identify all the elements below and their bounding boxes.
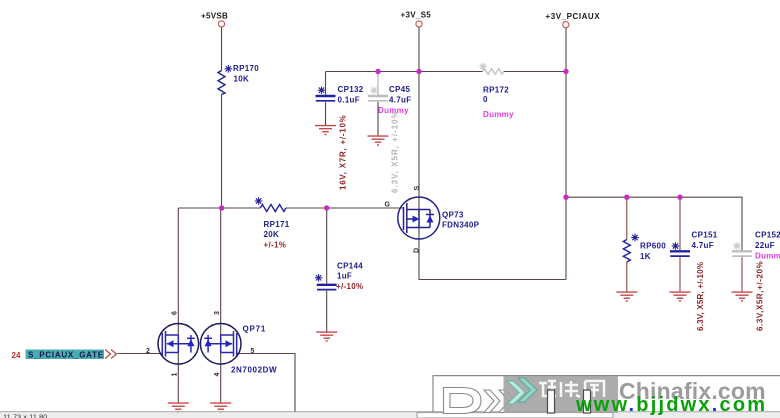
capacitor CP45 4.7uF Dummy (368, 85, 411, 193)
wire down to QP71 pin3 (220, 208, 222, 335)
svg-text:+/-1%: +/-1% (264, 241, 287, 250)
node PCIAUX top junction (563, 69, 568, 74)
ground CP144 (316, 332, 337, 341)
wire rail y=71.5 left of RP172 (326, 71, 483, 73)
wire CP152 bottom to ground (741, 257, 743, 291)
svg-text:+3V_PCIAUX: +3V_PCIAUX (546, 12, 601, 21)
warm drop wires right section (627, 197, 742, 291)
node CP151 junction (677, 195, 682, 200)
ground CP45 (368, 136, 389, 145)
svg-text:5: 5 (251, 348, 255, 355)
svg-text:+/-10%: +/-10% (336, 282, 363, 291)
svg-text:6: 6 (172, 311, 179, 315)
wire CP45 top (dummy gray) (377, 72, 379, 95)
ground CP152 (732, 292, 753, 301)
wire +3V_PCIAUX vertical (565, 28, 567, 280)
svg-text:Dummy: Dummy (755, 252, 780, 261)
wire CP132 top (325, 72, 327, 95)
ground RP600 (616, 292, 637, 301)
node PCIAUX mid junction (563, 195, 568, 200)
svg-text:11.73 x 11.80: 11.73 x 11.80 (3, 413, 47, 418)
svg-text:6.3V, X5R, +/-10%: 6.3V, X5R, +/-10% (696, 262, 705, 331)
wire down to QP71 pin6 (177, 208, 179, 335)
QP71 left half internals (162, 331, 194, 357)
wire CP132 bottom to ground (325, 102, 327, 125)
QP73 body diode arrow (427, 216, 434, 223)
svg-text:24: 24 (12, 351, 21, 360)
QP71b channel arrow (226, 340, 233, 347)
svg-text:4.7uF: 4.7uF (389, 96, 411, 105)
wire +5VSB down to RP170 (221, 27, 223, 71)
wire CP151 top (679, 197, 681, 250)
transistor QP73 FDN340P (398, 197, 440, 239)
svg-text:6.3V, X5R, +/-10%: 6.3V, X5R, +/-10% (391, 110, 400, 193)
title block border (433, 376, 780, 412)
power symbol +5VSB (201, 12, 228, 28)
logo outlined chevron 1 (484, 390, 500, 413)
watermark teal chevron 2 (518, 378, 537, 402)
wire CP144 top (326, 208, 328, 284)
svg-text:0.1uF: 0.1uF (338, 96, 360, 105)
svg-text:www.bjjdwx.com: www.bjjdwx.com (575, 394, 767, 416)
svg-text:16V, X7R, +/-10%: 16V, X7R, +/-10% (339, 114, 348, 190)
svg-text:1: 1 (172, 373, 179, 377)
QP71b body diode arrow (205, 339, 212, 346)
wire QP71-1 source to ground (177, 353, 179, 403)
node rail/RP170 junction (219, 205, 224, 210)
svg-text:G: G (385, 202, 391, 209)
capacitor CP132 0.1uF (316, 85, 364, 190)
svg-text:CP45: CP45 (389, 85, 410, 94)
power symbol +3V_S5 (401, 10, 432, 27)
capacitor CP151 4.7uF (670, 231, 718, 332)
wire RP170 to rail junction (221, 95, 223, 209)
logo outlined D (444, 388, 516, 414)
QP71a channel arrow (167, 340, 174, 347)
capacitor CP144 1uF (315, 262, 364, 292)
wire connector to QP71 pin2 (118, 353, 163, 355)
svg-text:20K: 20K (264, 230, 280, 239)
ground QP71-1 (168, 403, 189, 412)
node CP45 junction (375, 69, 380, 74)
wire rail y=208 left part (178, 207, 260, 209)
svg-text:3: 3 (214, 311, 221, 315)
logo outlined chevron 2 (499, 390, 515, 413)
svg-text:S_PCIAUX_GATE: S_PCIAUX_GATE (28, 351, 104, 360)
svg-text:RP600: RP600 (640, 242, 666, 251)
node S5 junction (416, 69, 421, 74)
svg-text:4: 4 (214, 373, 221, 377)
svg-text:QP71: QP71 (243, 325, 267, 334)
net label S_PCIAUX_GATE highlighted (26, 350, 105, 360)
resistor RP600 1K (623, 234, 666, 262)
svg-text:S: S (414, 186, 421, 191)
svg-text:+5VSB: +5VSB (201, 12, 228, 21)
schematic bottom edge (0, 411, 780, 413)
wire rail y=208 right part to QP73 gate (286, 207, 404, 209)
wire QP71 pin5 off page (237, 354, 295, 413)
transistor QP71 2N7002DW (dual) (158, 324, 241, 365)
node rail/CP144 junction (324, 205, 329, 210)
svg-text:CP132: CP132 (338, 85, 364, 94)
svg-text:RP170: RP170 (233, 64, 259, 73)
svg-text:CP144: CP144 (337, 262, 363, 271)
wire CP144 bottom to ground (326, 291, 328, 332)
wire QP71-2 source to ground (220, 353, 222, 403)
watermark gray bar (504, 376, 619, 413)
ground CP151 (670, 292, 691, 301)
svg-text:+3V_S5: +3V_S5 (401, 10, 432, 19)
svg-text:RP172: RP172 (483, 86, 509, 95)
node RP600 junction (624, 195, 629, 200)
off-page chevrons (105, 350, 117, 359)
wire CP151 bottom to ground (679, 257, 681, 291)
wire RP600 bottom to ground (626, 262, 628, 292)
svg-text:0: 0 (483, 95, 488, 104)
wire RP600 top (626, 197, 628, 239)
svg-text:6.3V,X5R,+/-20%: 6.3V,X5R,+/-20% (756, 261, 765, 331)
power symbol +3V_PCIAUX (546, 12, 601, 28)
wire CP45 bottom to ground (377, 102, 379, 136)
watermark teal chevron 1 (507, 381, 526, 404)
svg-text:10K: 10K (234, 75, 250, 84)
svg-text:1K: 1K (640, 252, 651, 261)
svg-text:1uF: 1uF (337, 272, 352, 281)
watermark CJK white glyphs (539, 381, 604, 397)
svg-text:CP152: CP152 (755, 231, 780, 240)
svg-text:FDN340P: FDN340P (442, 221, 480, 230)
QP71 right half internals (204, 331, 236, 357)
ground QP71-2 (210, 403, 231, 412)
svg-text:QP73: QP73 (442, 211, 464, 220)
capacitor CP152 22uF Dummy (732, 231, 780, 332)
QP73 channel arrow (413, 216, 420, 223)
svg-text:Dummy: Dummy (483, 110, 514, 119)
wire rail y=71.5 right of RP172 (504, 71, 566, 73)
resistor RP172 0 Dummy (479, 63, 514, 119)
wire QP73 drain to PCIAUX (419, 228, 566, 280)
wire +3V_S5 down to QP73 source (418, 27, 420, 210)
wire right rail y=197.2 (566, 197, 742, 250)
resistor RP170 10K (218, 64, 259, 95)
svg-text:4.7uF: 4.7uF (692, 241, 714, 250)
svg-text:2N7002DW: 2N7002DW (231, 366, 277, 375)
svg-text:CP151: CP151 (692, 231, 718, 240)
watermark dark legs (548, 390, 591, 413)
svg-text:D: D (414, 248, 421, 253)
svg-text:2: 2 (146, 348, 150, 355)
ground CP132 (315, 126, 336, 135)
resistor RP171 20K (255, 197, 290, 249)
svg-text:22uF: 22uF (755, 241, 775, 250)
svg-text:RP171: RP171 (264, 220, 290, 229)
QP71a body diode arrow (187, 339, 194, 346)
